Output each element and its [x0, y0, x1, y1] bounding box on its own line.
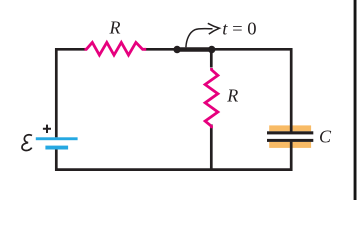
capacitor highlight band (bottom, orange) [269, 142, 311, 148]
battery + polarity sign [43, 125, 51, 133]
wire: left wire below battery + bottom wire + right wire up to capacitor [56, 142, 291, 170]
capacitor highlight band (top, orange) [269, 125, 311, 131]
page column border (right edge rule) [354, 0, 357, 200]
switch bar (closed switch between junctions), t = 0 [177, 47, 212, 52]
switch actuation arrow (curved, pointing at t = 0) [186, 29, 213, 48]
capacitor plate 2 (bottom, black) [267, 139, 313, 142]
wire: top wire from switch right dot to top-right corner, down to capacitor [212, 49, 292, 131]
battery negative plate (short, cyan) [45, 146, 68, 150]
node: switch left junction dot [173, 46, 180, 53]
resistor R2 (vertical, magenta zigzag) [205, 68, 218, 128]
svg-text:R: R [226, 85, 238, 105]
wire: middle branch below resistor R2 down to bottom wire [210, 124, 213, 169]
svg-text:t = 0: t = 0 [222, 19, 256, 39]
wire: top-left corner run (top wire left of R1 + left wire down to battery) [56, 49, 85, 137]
wire: top wire between resistor R1 and switch left dot [145, 48, 178, 51]
label EMF script E [22, 135, 32, 151]
resistor R1 (horizontal, magenta zigzag) [85, 42, 147, 55]
capacitor plate 1 (top, black) [267, 131, 313, 134]
node: switch right junction dot [208, 46, 215, 53]
wire: middle branch stub above resistor R2 [210, 50, 213, 68]
battery positive plate (long, cyan) [36, 137, 78, 140]
svg-text:C: C [319, 127, 332, 147]
svg-text:R: R [109, 17, 121, 37]
